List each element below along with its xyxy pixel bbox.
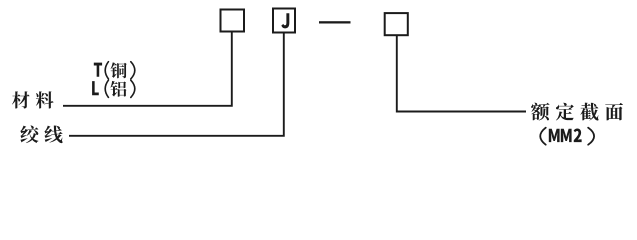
label T(copper) [94, 62, 127, 78]
box 1: material code placeholder [221, 10, 245, 32]
label 材料 (material) [12, 91, 54, 108]
parentheses around MM2 [540, 128, 594, 145]
wire from 材料 label to box 1 [63, 32, 232, 106]
box 2: letter J (stranded wire code) [273, 9, 295, 33]
box 3: cross-section placeholder [385, 13, 408, 35]
dash between box 2 and box 3 [319, 21, 351, 23]
parentheses around 铜 [105, 62, 135, 79]
label 绞线 (stranded wire) [20, 125, 62, 143]
wire from 绞线 label to box 2 [69, 33, 284, 136]
label L(aluminium) [92, 81, 126, 97]
label J inside box 2 [281, 13, 289, 28]
parentheses around 铝 [105, 80, 135, 97]
label 额定截面 (rated cross-section) [531, 103, 623, 121]
label (MM2) unit [549, 128, 582, 142]
wire from box 3 to 额定截面 label [397, 36, 526, 112]
